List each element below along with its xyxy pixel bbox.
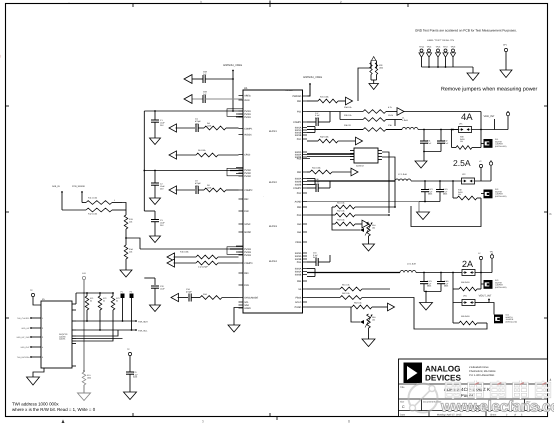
test point TP3	[490, 251, 495, 273]
svg-text:MODE: MODE	[244, 231, 251, 234]
ADI address	[469, 366, 496, 377]
bottom resistor R74	[82, 370, 91, 393]
watermark url	[440, 399, 554, 416]
cfg wires	[76, 321, 123, 341]
label 2A	[462, 259, 473, 269]
svg-text:PVIN3: PVIN3	[244, 254, 251, 257]
svg-text:FB4S: FB4S	[296, 297, 302, 300]
load branch buck2	[453, 181, 481, 200]
svg-text:R11 10.0k: R11 10.0k	[88, 197, 97, 200]
connector J2 buck2	[481, 188, 507, 198]
net arrow FB3	[362, 220, 369, 228]
svg-text:SW3A: SW3A	[295, 255, 302, 258]
ground header	[27, 377, 40, 385]
svg-text:R51 10k: R51 10k	[337, 202, 344, 205]
note TWI address	[12, 402, 59, 407]
svg-text:470pF: 470pF	[186, 290, 192, 293]
comp RC row buck2	[169, 180, 239, 195]
sense join wire	[122, 203, 126, 216]
fb sense loop buck3	[400, 298, 487, 330]
svg-text:PG1: PG1	[297, 138, 302, 141]
jumper out wire buck1	[472, 112, 509, 131]
pullup resistor R72	[98, 293, 106, 330]
PVIN1 bus	[144, 109, 243, 117]
svg-text:R53 10k: R53 10k	[337, 219, 344, 222]
svg-text:PVIN2: PVIN2	[244, 169, 251, 172]
ground GP1	[500, 70, 512, 78]
svg-text:FB3: FB3	[244, 272, 249, 275]
test point VOUT1	[506, 111, 509, 116]
svg-text:(INSTALLED): (INSTALLED)	[506, 320, 518, 323]
test point V2	[479, 160, 483, 181]
svg-text:VOUT_INT: VOUT_INT	[479, 295, 492, 298]
svg-text:(INSTALLED): (INSTALLED)	[495, 195, 507, 198]
svg-text:Chelmsford, MA 01824: Chelmsford, MA 01824	[469, 370, 496, 373]
svg-text:R58 240R: R58 240R	[461, 281, 470, 284]
net 1V8 rail	[83, 280, 85, 370]
svg-text:2.5A: 2.5A	[453, 158, 471, 168]
IC U1 left pins	[239, 95, 259, 311]
svg-text:R34 10k: R34 10k	[344, 106, 351, 109]
resistor R62 row	[307, 292, 400, 299]
svg-text:PWRGD: PWRGD	[285, 89, 293, 92]
ground C70	[124, 392, 137, 400]
svg-text:PVIN2: PVIN2	[244, 172, 251, 175]
svg-text:PVIN1: PVIN1	[244, 110, 251, 113]
SW2 bus	[307, 179, 395, 185]
svg-text:PGND: PGND	[295, 306, 302, 309]
svg-text:SCLO: SCLO	[295, 301, 301, 304]
svg-text:DNI: DNI	[195, 184, 199, 187]
svg-text:100k: 100k	[207, 124, 211, 127]
svg-text:1W: 1W	[460, 140, 463, 143]
connector J4 buck3	[489, 303, 517, 324]
svg-text:4: 4	[42, 346, 43, 349]
svg-text:AVB_IN: AVB_IN	[52, 185, 60, 188]
buck1 output line	[418, 129, 459, 131]
svg-text:COMP1: COMP1	[293, 121, 302, 124]
svg-text:0805: 0805	[444, 285, 448, 288]
svg-text:VDD_INT: VDD_INT	[483, 115, 495, 118]
svg-text:10uF: 10uF	[160, 287, 165, 290]
IC U2 pins	[350, 151, 382, 160]
load loop buck2	[411, 198, 481, 227]
resistor R43 row	[307, 136, 356, 143]
watermark hanzi	[446, 381, 550, 400]
svg-text:SS: SS	[298, 288, 302, 291]
load branch buck3	[453, 273, 481, 291]
svg-text:PVIN1: PVIN1	[244, 116, 251, 119]
svg-text:PVIN2: PVIN2	[244, 175, 251, 178]
svg-text:0402: 0402	[313, 256, 317, 259]
jumper JP2	[462, 173, 492, 184]
sense resistor R12	[62, 208, 122, 215]
resistor R51 row	[332, 202, 396, 209]
resistor R33 vertical	[375, 63, 377, 75]
svg-text:AVIN: AVIN	[244, 99, 250, 102]
test point TP21	[127, 348, 132, 372]
inductor L1	[402, 117, 418, 130]
fb join buck3	[307, 207, 332, 224]
svg-text:FB3S: FB3S	[296, 241, 302, 244]
svg-text:(INSTALLED): (INSTALLED)	[495, 286, 507, 289]
title block grid	[399, 359, 548, 417]
TWI_SDA wire	[76, 320, 148, 323]
svg-text:ANALOG: ANALOG	[425, 365, 460, 374]
IC U1 ADP5054 body	[243, 86, 303, 313]
ground buck3 output	[420, 303, 433, 311]
trimmer R64	[351, 307, 375, 339]
output cap gnd bus buck1	[423, 151, 441, 161]
net label ADP5054_VREG right	[303, 76, 322, 96]
svg-text:EN3: EN3	[244, 284, 249, 287]
svg-text:ADDR1: ADDR1	[59, 338, 65, 341]
svg-text:SW2B: SW2B	[295, 184, 302, 187]
shunt pad P2	[130, 291, 134, 331]
resistor R34 row	[344, 106, 397, 113]
svg-text:TWI_SDA: TWI_SDA	[138, 321, 148, 324]
net arrow FB1	[397, 108, 481, 116]
svg-text:BUCK1: BUCK1	[269, 130, 278, 133]
svg-text:FB1: FB1	[297, 100, 302, 103]
svg-text:0805: 0805	[428, 193, 432, 196]
svg-text:www.elecfans.com: www.elecfans.com	[440, 399, 554, 416]
svg-text:SS3: SS3	[297, 223, 302, 226]
ground C1	[150, 138, 161, 145]
pullup bus	[76, 292, 114, 304]
svg-text:DNI: DNI	[195, 122, 199, 125]
divider mid wire	[125, 229, 140, 249]
svg-text:PVIN1: PVIN1	[244, 113, 251, 116]
rev cell	[527, 401, 541, 410]
cap C70	[126, 371, 139, 392]
jumper JP4	[453, 289, 475, 306]
note remove jumpers	[441, 87, 538, 93]
watermark stamp circle	[409, 384, 438, 413]
net 1V8 test point	[82, 272, 86, 280]
svg-text:4A: 4A	[461, 112, 473, 123]
svg-text:AGND: AGND	[295, 201, 302, 204]
svg-text:SYNC/MODE: SYNC/MODE	[244, 297, 258, 300]
svg-text:0805: 0805	[443, 193, 447, 196]
docnum cell	[423, 401, 486, 411]
output cap C42	[436, 181, 448, 202]
comp cap buck3	[307, 252, 330, 267]
test point GP1	[503, 44, 508, 71]
svg-text:4.7k: 4.7k	[388, 106, 392, 109]
svg-text:BUCK4: BUCK4	[269, 260, 278, 263]
ground buck2 output	[417, 212, 430, 220]
resistor R61 row	[307, 284, 390, 291]
test point bus	[422, 66, 474, 73]
svg-text:PVIN3: PVIN3	[244, 248, 251, 251]
svg-text:P1: P1	[121, 291, 123, 294]
svg-text:R31 100k: R31 100k	[320, 96, 329, 99]
svg-text:1: 1	[42, 317, 43, 320]
divider resistor R13	[124, 215, 133, 229]
svg-text:0: 0	[348, 420, 350, 424]
svg-text:BUCK3: BUCK3	[269, 225, 278, 228]
svg-text:R62 10k: R62 10k	[342, 292, 349, 295]
svg-text:..: ..	[68, 0, 70, 4]
svg-text:L2 1.0uH: L2 1.0uH	[398, 173, 407, 176]
header J5 right pins	[59, 304, 76, 366]
net label VOUT_INT	[475, 295, 492, 303]
resistor R52 row	[332, 210, 390, 217]
svg-text:COMP1: COMP1	[244, 128, 253, 131]
svg-text:FS1: FS1	[297, 111, 302, 114]
cap gnd bus buck3	[424, 291, 441, 303]
test point TP20	[30, 289, 41, 305]
svg-text:SW2A: SW2A	[295, 178, 302, 181]
svg-text:1.0uH: 1.0uH	[402, 119, 408, 122]
note GND test points	[415, 29, 517, 33]
ADI logo	[404, 363, 423, 384]
svg-text:2: 2	[42, 327, 43, 330]
test points TP14-TP18	[419, 46, 456, 68]
svg-text:COMP2: COMP2	[293, 187, 302, 190]
connector J3 buck3	[481, 279, 507, 289]
input cap C1	[151, 111, 165, 138]
ground C5	[150, 305, 161, 312]
date cell	[400, 414, 523, 417]
pullup resistor R71	[85, 293, 93, 321]
svg-text:R59 240R: R59 240R	[461, 315, 470, 318]
en row buck1	[169, 149, 239, 159]
SW1 bus	[307, 127, 363, 133]
comp RC row buck3a	[167, 251, 239, 262]
note TWI rw bit	[12, 407, 96, 412]
svg-text:2k: 2k	[116, 299, 118, 302]
output cap C31	[420, 130, 432, 152]
svg-text:RTN_SENSE: RTN_SENSE	[72, 185, 86, 188]
svg-text:R12 10.0k: R12 10.0k	[88, 213, 97, 216]
load resistor R59	[453, 303, 487, 325]
net arrow PG1b	[356, 137, 363, 145]
svg-text:SW4A: SW4A	[295, 268, 302, 271]
U2 bus wires	[307, 152, 395, 213]
divider gnd wire	[125, 259, 127, 270]
svg-text:ADP5054_VREG: ADP5054_VREG	[223, 64, 242, 67]
svg-text:100k: 100k	[207, 186, 211, 189]
gray agnd bus buck2	[307, 202, 419, 213]
ground divider buck1	[369, 75, 379, 90]
buck3 output line	[416, 272, 462, 274]
resistor R41 row	[307, 167, 351, 174]
svg-text:C12 470pF: C12 470pF	[198, 266, 209, 269]
ground test bus	[467, 73, 479, 81]
jumper JP1	[451, 123, 472, 133]
load conn wire buck1	[481, 143, 484, 145]
svg-text:C: C	[402, 405, 405, 409]
svg-text:1W: 1W	[458, 193, 461, 196]
output cap C52	[437, 273, 449, 292]
resistor R32 vertical	[370, 63, 383, 75]
svg-text:P2: P2	[130, 291, 132, 294]
snubber R36	[344, 124, 402, 131]
svg-text:TWI_DAT/SDA: TWI_DAT/SDA	[17, 356, 30, 359]
svg-text:SW1B: SW1B	[295, 134, 302, 137]
svg-text:AVDD1: AVDD1	[244, 134, 252, 137]
ground arrow C59	[184, 95, 192, 104]
svg-text:R6 100k: R6 100k	[198, 149, 205, 152]
resistor R63 row	[307, 302, 388, 309]
svg-text:FB4: FB4	[297, 280, 302, 283]
svg-text:DEVICES: DEVICES	[425, 374, 461, 383]
sense resistor R11	[82, 197, 122, 205]
ground trimmer buck3	[363, 244, 375, 251]
SW3 bus	[307, 269, 400, 277]
svg-text:SW4A: SW4A	[295, 271, 302, 274]
ground 1V8	[78, 393, 91, 401]
svg-text:R52 10k: R52 10k	[337, 210, 344, 213]
IC U1 right pins	[292, 95, 310, 309]
svg-text:SYNC: SYNC	[244, 223, 251, 226]
header gnd wire	[33, 368, 44, 377]
svg-text:VREG: VREG	[244, 95, 251, 98]
svg-text:Document Number: Document Number	[423, 401, 442, 404]
svg-text:PWRGD: PWRGD	[292, 95, 301, 98]
svg-text:PG3: PG3	[297, 214, 302, 217]
ground trimmer buck4	[362, 339, 375, 347]
svg-text:SS4: SS4	[297, 231, 302, 234]
header J5 body	[41, 298, 72, 368]
shunt pad P1	[121, 291, 125, 322]
jumper JP3	[462, 265, 492, 276]
divider wire buck1	[358, 63, 377, 102]
svg-text:PG2: PG2	[297, 158, 302, 161]
pullup resistor R73	[111, 293, 119, 337]
resistor R31 row	[307, 96, 346, 103]
svg-text:R36 2R: R36 2R	[344, 124, 351, 127]
PVIN2 bus	[144, 168, 243, 176]
net arrow PG2	[351, 168, 358, 176]
svg-text:SW3A: SW3A	[295, 252, 302, 255]
svg-text:100k: 100k	[379, 66, 383, 69]
svg-text:AD8XXX: AD8XXX	[356, 165, 365, 168]
svg-text:U1: U1	[244, 86, 248, 90]
svg-text:2k: 2k	[90, 299, 92, 302]
svg-text:PVIN3: PVIN3	[244, 251, 251, 254]
svg-text:10k: 10k	[372, 226, 375, 229]
svg-text:BUCK2: BUCK2	[269, 181, 278, 184]
ADI logo text	[425, 365, 461, 383]
capacitor C58 row	[191, 71, 234, 84]
net label VDD_INT buck1	[483, 115, 495, 118]
comp cap buck2	[307, 178, 330, 192]
svg-text:EN2: EN2	[244, 210, 249, 213]
svg-text:Title: Title	[400, 386, 405, 389]
svg-text:0402: 0402	[133, 376, 137, 379]
test point V3	[478, 252, 483, 273]
ground under IC	[228, 325, 240, 332]
output cap C32	[437, 130, 449, 152]
inductor L3	[400, 263, 416, 273]
svg-text:10k: 10k	[129, 250, 132, 253]
PVIN3 stub	[144, 210, 155, 212]
header J5 left pins	[16, 317, 43, 359]
test point TP2	[489, 161, 492, 181]
svg-text:TWI_CLK/SCL: TWI_CLK/SCL	[17, 317, 29, 320]
svg-text:R35 10k: R35 10k	[344, 114, 351, 117]
fb wire buck1 top	[307, 111, 363, 113]
cap gnd bus buck2	[419, 201, 440, 203]
input cap C5	[144, 278, 165, 305]
pgood net label buck1	[285, 89, 293, 92]
svg-text:SW3B: SW3B	[295, 258, 302, 261]
ground C2	[150, 198, 161, 205]
resistor R35 row	[340, 114, 402, 121]
svg-text:(INSTALLED): (INSTALLED)	[495, 145, 507, 148]
svg-text:SDA: SDA	[244, 304, 249, 307]
svg-text:FB2: FB2	[297, 171, 302, 174]
comp cap buck1	[307, 112, 330, 127]
comp RC row buck4	[171, 288, 239, 302]
note label test	[427, 39, 455, 42]
svg-text:R63 10k: R63 10k	[354, 302, 361, 305]
svg-text:FB3: FB3	[297, 206, 302, 209]
svg-text:R41 100k: R41 100k	[312, 167, 321, 170]
PVIN3 bus wire	[140, 246, 243, 254]
svg-text:CFG2: CFG2	[244, 154, 251, 157]
svg-text:where x is the R/W bit. Read =: where x is the R/W bit. Read = 1, Write …	[12, 407, 96, 412]
svg-text:10k: 10k	[372, 318, 375, 321]
svg-text:SCL: SCL	[244, 301, 249, 304]
svg-text:100k: 100k	[87, 376, 91, 379]
buck2 output line	[411, 180, 462, 182]
svg-text:Date: Date	[400, 414, 406, 417]
svg-text:ADP5054_VREG: ADP5054_VREG	[303, 76, 322, 79]
svg-text:R16 100k: R16 100k	[180, 251, 189, 254]
divider resistor R14	[124, 245, 133, 259]
svg-text:5: 5	[42, 356, 43, 359]
svg-text:VDD_OUT: VDD_OUT	[20, 346, 30, 349]
comp RC row buck1	[169, 118, 239, 133]
svg-text:2 Elizabeth Drive: 2 Elizabeth Drive	[469, 366, 489, 369]
svg-text:COMP3: COMP3	[244, 262, 253, 265]
trimmer R54	[332, 222, 375, 244]
svg-text:LABEL "TEST" ON ALL TPs: LABEL "TEST" ON ALL TPs	[427, 39, 455, 42]
svg-text:AGND: AGND	[244, 307, 251, 310]
size cell	[400, 401, 405, 410]
ground C3	[150, 236, 161, 243]
svg-text:PG4: PG4	[297, 261, 302, 264]
net arrow PG1	[346, 97, 353, 105]
net arrow FB4	[388, 303, 395, 311]
capacitor C59 row	[191, 91, 243, 104]
svg-text:Remove jumpers when measuring: Remove jumpers when measuring power	[441, 87, 538, 93]
output cap C41	[421, 181, 433, 202]
IC ground wire bottom left	[234, 308, 243, 326]
svg-text:PH: 1-800-ANALOGD: PH: 1-800-ANALOGD	[469, 374, 494, 377]
load resistor R38	[452, 130, 482, 150]
svg-text:2k: 2k	[103, 299, 105, 302]
svg-text:PG2: PG2	[297, 192, 302, 195]
svg-text:VDD_INT_SNS: VDD_INT_SNS	[16, 336, 30, 339]
svg-text:R61 10k: R61 10k	[342, 284, 349, 287]
TWI_SCL wire	[76, 329, 148, 332]
PVIN rail vertical	[143, 111, 145, 211]
net label ADP5054_VREG left	[223, 64, 242, 111]
svg-text:SW2B: SW2B	[295, 181, 302, 184]
input cap C3	[151, 211, 165, 236]
net label AVB_IN	[52, 185, 63, 210]
svg-text:TWI address 1000 000x: TWI address 1000 000x	[12, 402, 59, 407]
input cap C2	[151, 171, 165, 199]
svg-text:B: B	[550, 212, 552, 216]
svg-text:0805: 0805	[427, 285, 431, 288]
svg-text:FB2: FB2	[244, 198, 249, 201]
